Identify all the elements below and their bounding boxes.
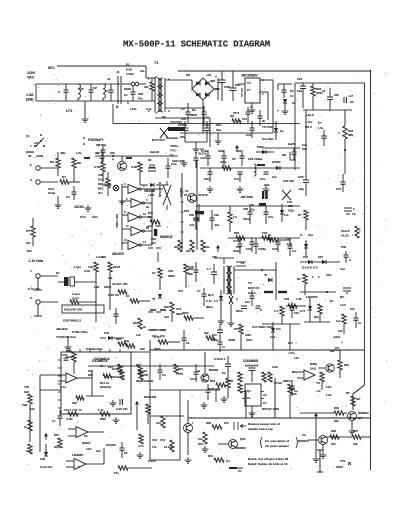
capacitor C21p [116,399,128,411]
wire band3 v1 [95,284,97,322]
svg-text:K1a: K1a [198,437,203,441]
svg-text:CD4060B: CD4060B [243,359,258,363]
dash t4b [278,291,287,293]
svg-text:C?4: C?4 [300,309,305,313]
svg-text:L10a: L10a [130,107,137,111]
svg-text:*10: *10 [316,381,320,385]
capacitor C19 [272,238,281,252]
svg-text:C4C: C4C [287,200,292,204]
inductor LF1 winding A [78,84,84,101]
svg-text:R6: R6 [50,160,54,164]
resistor R25h [268,233,290,242]
svg-text:16V: 16V [180,135,185,139]
op-amp U7 [292,370,315,380]
label 26a [282,152,296,160]
svg-text:3S: 3S [148,158,151,162]
svg-text:2x2: 2x2 [350,307,355,311]
svg-text:R54: R54 [210,379,216,383]
capacitor C8a [297,77,306,108]
capacitor C55 [182,330,190,350]
wire t4 top feed [214,258,234,264]
wire long bus [188,417,371,419]
svg-text:1k8: 1k8 [24,390,29,394]
resistor R1 [144,78,154,101]
svg-text:1C: 1C [105,89,109,93]
label G03+NB16D [56,319,81,332]
IC U10 [242,384,264,406]
cap plates F [344,207,356,216]
svg-text:1B0.1C8: 1B0.1C8 [172,159,184,163]
svg-text:R21: R21 [136,363,142,367]
svg-text:34Ca: 34Ca [220,160,227,164]
label TY2avO3 [56,335,76,339]
capacitor CX2 [89,84,98,101]
svg-text:39C: 39C [188,272,193,276]
dash c2 [148,247,161,249]
svg-text:1.2a: 1.2a [76,151,82,155]
label cluster q [316,381,332,397]
capacitor C8 [322,88,339,110]
node hv junction [344,149,346,151]
label LF1 [66,109,72,113]
svg-text:10C: 10C [216,123,222,127]
capacitor C54 [290,302,300,318]
resistor R16 [88,262,98,284]
svg-text:2C2a00: 2C2a00 [106,443,116,447]
svg-text:-N5902: -N5902 [208,368,218,372]
label 4n2 [96,449,101,453]
resistor R6 [50,152,60,176]
capacitor C42c [233,238,243,254]
svg-text:C13: C13 [80,215,86,219]
capacitor C82p [254,238,267,254]
note2 text [248,462,288,466]
label 1uAr [340,267,345,271]
svg-text:C9: C9 [302,433,306,437]
capacitor C33 [256,306,263,312]
wire u4 in [238,83,245,85]
resistor R65 [283,379,297,418]
svg-text:?u: ?u [170,153,174,157]
op-amp U2B [122,197,152,208]
label 5Va [302,147,308,151]
svg-text:S03: S03 [126,87,131,91]
label +12C [148,193,155,197]
svg-text:+C?a: +C?a [288,351,295,355]
dash t4a [264,291,273,293]
resistor R11 [131,162,142,185]
svg-text:R1: R1 [192,108,196,112]
capacitor C12 [292,148,297,160]
resistor R50 [338,350,350,378]
svg-text:X: X [58,90,60,94]
label CY row2 [72,330,88,334]
svg-text:07a: 07a [138,97,143,101]
svg-text:3K3(1C2a43): 3K3(1C2a43) [136,379,153,383]
svg-text:22K6: 22K6 [168,274,175,278]
svg-text:1.3C: 1.3C [326,393,332,397]
label 42 stack [198,147,207,160]
svg-text:.08a: .08a [60,151,66,155]
svg-text:4.2: 4.2 [200,147,204,151]
svg-text:1.5u: 1.5u [318,126,324,130]
svg-text:R50: R50 [344,363,349,367]
svg-text:1b: 1b [100,364,104,368]
resistor R42v [106,172,110,196]
resistor R7 [60,175,80,184]
svg-text:39C5: 39C5 [154,347,161,351]
wire comparator rail [122,160,197,250]
svg-text:disable Auto Loop: disable Auto Loop [248,427,273,431]
resistor R41 [338,110,347,150]
op-amp U1A [58,373,92,389]
svg-text:13C: 13C [294,356,299,360]
svg-text:J1: J1 [116,70,120,74]
resistor box r [298,210,308,230]
label TP1 [336,459,351,469]
svg-text:R14 1k: R14 1k [100,381,109,385]
arrow C8C [212,245,220,259]
svg-text:C22: C22 [297,77,303,81]
label regulator [262,137,275,141]
cap cz [330,348,340,353]
svg-text:S41a?4E C63: S41a?4E C63 [64,308,83,312]
diode D14 [303,255,312,264]
ground q10b [185,457,192,463]
svg-text:1uA: 1uA [340,267,345,271]
svg-text:C94K: C94K [226,379,233,383]
svg-text:A4A: A4A [84,269,91,273]
cap C27 [340,288,351,299]
IC U1 box [61,352,131,414]
svg-text:27k: 27k [224,421,229,425]
arrow vcc u6 [44,433,48,440]
label SEC [48,66,56,70]
svg-text:C7a: C7a [268,215,273,219]
label T4 conn [236,262,246,266]
label bot texts [86,447,92,451]
svg-text:A03a: A03a [36,154,44,158]
diode D10 [214,290,223,308]
svg-text:3F: 3F [238,119,241,123]
label c62 row [249,203,266,212]
svg-text:.40p: .40p [298,187,304,191]
op-amp U6 [68,427,104,446]
capacitor C9f [344,94,354,104]
svg-text:T4: T4 [240,261,244,265]
label u10 right [263,393,267,405]
svg-text:C1: C1 [247,396,251,400]
svg-text:Note1: Cut off pins 3 thru 36: Note1: Cut off pins 3 thru 36 [248,457,288,461]
label 10C 10a [216,123,222,132]
svg-text:420R: 420R [228,338,236,342]
wire inner border right [295,83,365,404]
label SN rot [179,188,183,198]
wire prim bot [128,101,155,104]
capacitor dark pair [262,191,268,199]
label -302 2060 [240,195,253,199]
ground J area [55,196,62,208]
label (1) J.D [26,134,38,145]
capacitor C60 [354,312,362,328]
svg-text:C2: C2 [124,451,128,455]
svg-text:C2a: C2a [214,213,219,217]
wire AC hot [36,83,62,85]
wire c5 top [221,71,223,72]
dash b [150,329,166,331]
svg-text:+D1: +D1 [206,73,212,77]
svg-text:C?82p: C?82p [258,247,266,251]
svg-text:1D: 1D [350,100,354,104]
capacitor C11 [246,121,255,138]
svg-text:.10a: .10a [214,223,220,227]
svg-text:11M: 11M [40,457,45,461]
label 6C2 [176,307,183,316]
capacitor dark C3C2 [151,229,157,245]
svg-text:4R2: 4R2 [72,401,77,405]
label C41ba0Ca [94,357,110,361]
svg-text:?: ? [338,131,340,135]
resistor R31 [112,364,122,374]
svg-text:+: + [277,109,279,113]
svg-text:Ca: Ca [162,373,166,377]
label Level Cath [72,292,80,301]
svg-text:DCC: DCC [98,178,104,182]
label P4z1 [233,111,241,123]
svg-text:4 P2 3 7 P3 1C: 4 P2 3 7 P3 1C [64,409,82,412]
capacitor C5 electrolytic [215,71,231,101]
label L92 22K5 [94,285,112,289]
label 1 2 [30,144,35,148]
wire stub bus [245,390,247,418]
ground r54b [201,402,208,408]
inductor LF1 winding B [103,84,109,101]
label 1K 1C3a41 [104,375,124,379]
diode D5z [282,99,289,114]
capacitor C31 [245,290,255,306]
svg-text:12C: 12C [334,93,339,97]
label u10 note [262,407,279,411]
wire u4 out2 [260,80,273,133]
ground Q8 [349,421,356,434]
terminal J4 [30,269,58,278]
zener D6 [274,121,284,140]
resistor R58 [114,466,152,475]
svg-text:R8: R8 [77,161,81,165]
wire q10 [150,400,188,455]
svg-text:For auto-detect of: For auto-detect of [265,439,289,443]
resistor R28 [184,264,194,288]
svg-text:TP1: TP1 [340,459,346,463]
resistor net u5a [238,372,242,393]
ground row2a [207,186,214,192]
svg-text:L4A,C: L4A,C [306,113,314,117]
node osc [112,155,114,157]
svg-text:C-4: C-4 [274,309,279,313]
svg-text:120V: 120V [336,465,343,469]
wire dr [286,305,306,307]
capacitor C23 [260,172,269,181]
resistor R30c [154,335,180,351]
svg-text:4L7: 4L7 [98,191,103,195]
label right u5 [288,341,299,360]
svg-text:7.3: 7.3 [233,215,237,219]
diode D5 [272,160,281,179]
resistor small u1 [72,396,84,405]
svg-text:1/2A: 1/2A [246,338,252,342]
title text [123,40,270,50]
resistor R31c [204,331,215,340]
svg-text:C36: C36 [284,297,290,301]
svg-text:214: 214 [276,327,281,331]
label box int3 [300,233,313,237]
wire mid right [300,261,340,263]
ground LF1 [82,101,89,122]
svg-text:40a: 40a [186,249,191,253]
capacitor C44b [249,368,256,382]
svg-text:W?: W? [26,229,31,233]
svg-text:Note2: Solder dir both at U1: Note2: Solder dir both at U1 [248,462,288,466]
wire filt bus [228,237,300,239]
svg-text:C7a: C7a [260,177,266,181]
svg-text:C.7a: C.7a [60,385,66,389]
resistor R32 [138,366,148,376]
ground T4a [218,308,225,324]
svg-text:43bu81k: 43bu81k [56,327,68,331]
wire t4 right2 [275,262,277,300]
svg-text:1/2a: 1/2a [270,335,276,339]
ground row2c [263,186,270,192]
resistor net u5b [262,365,283,385]
wire bus133 [180,132,273,134]
svg-text:1.45: 1.45 [296,297,302,301]
terminal J3 [30,178,58,184]
label box int2 [302,143,307,147]
wire comparator out bus [157,252,159,262]
svg-text:q: q [112,157,114,161]
label 22K [88,369,93,377]
capacitor C13 [66,186,77,200]
wire osc top [95,155,178,157]
label 3K3C [136,379,153,383]
ground Q9 [320,445,327,458]
svg-text:C34: C34 [236,149,241,153]
resistor R21 [262,231,271,240]
resistor R17 [102,255,120,284]
label P7 text [148,459,156,463]
svg-text:1k8: 1k8 [30,407,35,411]
terminal J4 stem [34,278,42,290]
label CD4067B [92,359,108,368]
svg-text:.1C6: .1C6 [286,242,292,246]
label C20b [286,237,292,246]
label C1a2 [341,229,350,238]
wire q9 base [308,440,319,462]
svg-text:2a0/ab0uF: 2a0/ab0uF [245,364,259,368]
svg-text:R22C300: R22C300 [144,395,157,399]
svg-text:C34: C34 [189,265,194,269]
resistor R57 [54,433,62,449]
svg-text:1C1A 7uF: 1C1A 7uF [40,465,53,469]
arrow vcc right [314,413,318,450]
svg-text:B12: B12 [133,321,138,325]
label C dash [152,440,165,449]
capacitor C63 [194,152,199,168]
svg-text:DCC: DCC [54,445,60,449]
wire row y206 [196,205,300,207]
op-amp U2A [122,182,152,194]
label K1 mid [126,294,150,303]
svg-text:MAP F3: MAP F3 [248,286,259,290]
IC U1 top ticks [70,349,120,352]
svg-text:R43: R43 [116,337,122,341]
wire 290 col [289,324,291,350]
resistor R27 [152,268,162,290]
wire emitter bus [327,436,352,438]
label 11a r [258,157,263,161]
svg-text:0.1: 0.1 [124,93,128,97]
resistor R26 [288,304,297,308]
svg-text:4uF: 4uF [108,276,113,280]
svg-text:C54: C54 [294,311,299,315]
svg-text:C18: C18 [246,247,252,251]
svg-text:B?C?4C?: B?C?4C? [152,138,165,142]
resistor R35 [328,406,347,423]
ground note a [229,467,237,469]
diode D11 [229,290,238,312]
svg-text:C14 420R 1/2A: C14 420R 1/2A [252,325,274,329]
resistor R40 [311,83,323,110]
svg-text:M?,: M?, [340,295,345,299]
svg-text:1C: 1C [152,271,156,275]
svg-text:2x?: 2x? [288,341,293,345]
capacitor C7a2 [264,206,274,224]
svg-text:MJ3s: MJ3s [310,362,317,366]
svg-text:90Ca: 90Ca [236,309,243,313]
svg-text:4.7W: 4.7W [66,417,73,421]
svg-text:LF1: LF1 [66,109,72,113]
wire AC neutral [36,100,128,102]
svg-text:C2a: C2a [297,89,303,93]
capacitor C30 [207,264,217,284]
label A013V [240,88,244,97]
svg-text:90Ca: 90Ca [206,305,213,309]
svg-text:1k2: 1k2 [26,241,31,245]
svg-text:F: F [353,207,355,211]
diode D13 [152,294,162,301]
wire sec bus [137,123,300,125]
op-amp U2E [122,238,152,250]
capacitor C10 [336,174,346,192]
svg-text:13C6C: 13C6C [74,205,85,209]
resistor R8 [72,158,81,182]
capacitor C56 [218,336,226,352]
note brace [261,437,298,448]
svg-text:X2: X2 [80,87,84,91]
ground r54 [221,396,228,402]
wire sec drop [113,104,137,124]
resistor R37 [352,429,370,446]
svg-text:MX-500P-11 SCHEMATIC DIAGRAM: MX-500P-11 SCHEMATIC DIAGRAM [123,40,270,50]
svg-text:25.2?a: 25.2?a [198,152,207,156]
wire post [278,84,292,90]
transistor Q9 [298,433,328,445]
svg-text:1N4148: 1N4148 [144,189,155,193]
svg-text:hru zller: hru zller [262,137,275,141]
label SM29C6 [160,235,173,239]
resistor R30 [66,352,76,374]
label 2V2 [108,365,113,369]
